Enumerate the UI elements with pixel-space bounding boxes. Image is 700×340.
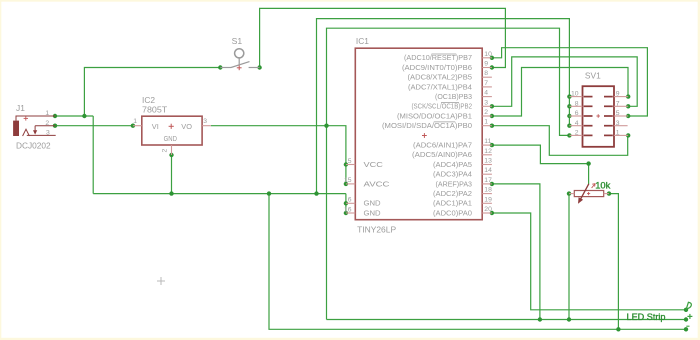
svg-text:7: 7: [484, 80, 488, 87]
junction dots IC1 right pins: [490, 56, 494, 216]
label DCJ0202: [16, 140, 51, 150]
svg-text:1: 1: [484, 119, 488, 126]
sheet origin cross: [157, 277, 165, 285]
svg-text:AVCC: AVCC: [364, 179, 391, 188]
switch S1 origin cross: [237, 65, 242, 70]
wire GND: rail down to LED minus line: [269, 194, 686, 330]
regulator IC2 origin cross: [169, 124, 174, 129]
microcontroller IC1 port B overlines: [432, 54, 460, 122]
svg-text:(ADC1)PA1: (ADC1)PA1: [433, 199, 472, 208]
wire GND: J1 pin1 run: [55, 115, 93, 117]
svg-text:7: 7: [616, 100, 620, 107]
label S1: [232, 36, 243, 46]
wire GND: bottom ground rail: [93, 193, 346, 195]
svg-text:(ADC7/XTAL1)PB4: (ADC7/XTAL1)PB4: [408, 82, 472, 91]
header SV1 inner pin dashes: [584, 97, 613, 136]
svg-text:1: 1: [45, 110, 49, 117]
svg-text:S1: S1: [232, 36, 243, 46]
potentiometer R1 pin stubs: [569, 193, 609, 195]
svg-text:17: 17: [484, 177, 492, 184]
svg-text:8: 8: [575, 100, 579, 107]
svg-text:10: 10: [484, 51, 492, 58]
svg-text:DCJ0202: DCJ0202: [16, 140, 51, 150]
label 10k: [595, 179, 610, 190]
svg-text:12: 12: [484, 148, 492, 155]
header SV1 box: [583, 86, 615, 147]
svg-text:5: 5: [616, 110, 620, 117]
connector J1 center prong: [23, 129, 30, 136]
svg-text:3: 3: [46, 130, 50, 137]
microcontroller IC1 box: [355, 48, 482, 220]
junction dot VCC tee: [324, 124, 328, 128]
label TINY26LP: [357, 224, 396, 234]
connector J1 pin 3: [27, 134, 56, 136]
header SV1 right pin numbers: [616, 91, 620, 137]
svg-text:2: 2: [45, 120, 49, 127]
label SV1: [585, 71, 601, 81]
svg-text:3: 3: [484, 99, 488, 106]
potentiometer R1 wiper arrow: [578, 184, 589, 204]
microcontroller IC1 power labels: [364, 160, 391, 218]
header SV1 right pin stubs: [614, 97, 628, 136]
svg-text:8: 8: [484, 70, 488, 77]
svg-text:(ADC5/AIN0)PA6: (ADC5/AIN0)PA6: [412, 150, 472, 159]
switch S1 button: [235, 49, 244, 65]
wire VCC: LED plus line: [327, 319, 687, 321]
svg-text:20: 20: [484, 206, 492, 213]
svg-text:11: 11: [484, 138, 491, 145]
pin minus endpoint glyph: [686, 325, 689, 327]
svg-text:TINY26LP: TINY26LP: [357, 224, 396, 234]
junction dots LED strip lines: [538, 308, 689, 332]
svg-text:(ADC8/XTAL2)PB5: (ADC8/XTAL2)PB5: [408, 73, 473, 82]
microcontroller IC1 left pin numbers: [344, 158, 352, 214]
regulator IC2 box: [142, 116, 202, 145]
junction dots SV1 right pins: [626, 94, 630, 137]
wire VCC: IC2 VO to IC1 VCC/AVCC: [211, 126, 346, 184]
svg-text:LED Strip: LED Strip: [627, 311, 666, 322]
microcontroller IC1 origin cross: [422, 133, 427, 138]
pin D endpoint glyph: [686, 302, 691, 309]
microcontroller IC1 port B labels: [382, 53, 472, 130]
potentiometer R1 origin cross: [587, 192, 590, 195]
microcontroller IC1 left pin stubs: [346, 165, 355, 214]
svg-text:13: 13: [484, 158, 492, 165]
svg-text:9: 9: [616, 91, 620, 98]
wire GND: IC2 pin2 drop to rail: [171, 155, 173, 194]
svg-text:(AREF)PA3: (AREF)PA3: [436, 179, 473, 188]
regulator IC2 pin numbers: [133, 118, 207, 153]
svg-text:10k: 10k: [595, 179, 610, 190]
svg-text:VCC: VCC: [364, 160, 384, 169]
svg-text:6: 6: [575, 110, 579, 117]
microcontroller IC1 right pin numbers: [484, 51, 492, 213]
svg-text:19: 19: [484, 196, 492, 203]
svg-text:15: 15: [344, 177, 352, 184]
junction dots IC1 left pins: [344, 162, 348, 215]
wire S1 to IC1 PB6: [260, 8, 506, 67]
svg-text:1: 1: [133, 118, 137, 125]
svg-text:3: 3: [616, 120, 620, 127]
wire GND: rail to IC1 GND pins: [345, 194, 347, 213]
svg-text:2: 2: [484, 109, 488, 116]
svg-text:(MOSI/DI/SDA/OC1A)PB0: (MOSI/DI/SDA/OC1A)PB0: [382, 121, 472, 130]
svg-text:7805T: 7805T: [142, 105, 167, 115]
svg-text:2: 2: [162, 149, 169, 153]
svg-text:10: 10: [571, 91, 579, 98]
header SV1 origin cross: [596, 114, 600, 118]
wire GND: J1 pin1 down to ground rail: [92, 116, 94, 194]
svg-text:GND: GND: [164, 136, 177, 143]
svg-text:(ADC6/AIN1)PA7: (ADC6/AIN1)PA7: [413, 141, 472, 150]
svg-text:IC2: IC2: [142, 95, 155, 105]
junction dots SV1 left pins: [567, 94, 571, 137]
svg-text:4: 4: [575, 120, 579, 127]
svg-text:(ADC3)PA4: (ADC3)PA4: [433, 170, 472, 179]
connector J1 body: [13, 121, 19, 136]
wire IC1 PB1 to SV1 pin9: [492, 68, 628, 117]
wire pot right pin to LED minus line: [609, 194, 618, 330]
svg-text:IC1: IC1: [356, 36, 369, 46]
junction dots S1: [218, 65, 262, 69]
svg-text:14: 14: [484, 167, 492, 174]
wire VCC: IC1 PA3 to LED plus line: [492, 184, 540, 320]
wire IC1 PB0 to SV1 pin1: [492, 126, 628, 156]
svg-text:GND: GND: [364, 199, 381, 208]
svg-text:SV1: SV1: [585, 71, 601, 81]
wire GND: up from J1 pin1 to S1 left: [84, 68, 220, 117]
connector J1 pin numbers: [45, 110, 50, 136]
junction dots IC2 gnd: [169, 153, 173, 196]
junction dots gnd rail: [267, 191, 319, 195]
svg-text:6: 6: [348, 197, 352, 204]
label IC1: [356, 36, 369, 46]
svg-text:(OC1B)PB3: (OC1B)PB3: [435, 92, 472, 101]
svg-text:3: 3: [203, 118, 207, 125]
pin plus endpoint glyph: [687, 314, 692, 319]
header SV1 left pin numbers: [571, 91, 579, 137]
svg-text:GND: GND: [364, 208, 381, 217]
wire VCC: loop over IC1 to SV1 pin2: [327, 28, 570, 319]
svg-text:(ADC0)PA0: (ADC0)PA0: [433, 208, 472, 217]
svg-text:4: 4: [484, 90, 488, 97]
wire VCC: pot left pin to LED plus line: [568, 194, 570, 320]
wire IC1 PA7 to pot wiper: [492, 145, 589, 184]
regulator IC2 pin labels VI VO GND: [152, 122, 192, 143]
potentiometer R1 adjust tick: [592, 184, 596, 188]
svg-text:(ADC2)PA2: (ADC2)PA2: [433, 189, 472, 198]
svg-text:(MISO/DO/OC1A)PB1: (MISO/DO/OC1A)PB1: [397, 111, 472, 120]
wire VIN: J1 pin2 to IC2 VI: [55, 125, 133, 127]
connector J1 origin cross: [24, 116, 28, 120]
potentiometer R1 10k box: [574, 191, 603, 197]
connector J1 pin 2 with switch arrow: [33, 126, 55, 135]
label J1: [16, 103, 25, 113]
svg-text:1: 1: [616, 130, 620, 137]
svg-text:(ADC4)PA5: (ADC4)PA5: [433, 160, 472, 169]
svg-text:16: 16: [344, 206, 352, 213]
regulator IC2 pin 3 stub: [202, 125, 211, 127]
wire GND: loop over IC1 to SV1 pins 10-4: [317, 19, 570, 194]
svg-text:2: 2: [575, 130, 579, 137]
label IC2: [142, 95, 155, 105]
svg-text:VO: VO: [181, 122, 192, 131]
header SV1 left pin stubs: [569, 97, 582, 136]
microcontroller IC1 port A labels: [412, 141, 472, 218]
svg-text:(ADC10/RESET)PB7: (ADC10/RESET)PB7: [404, 53, 472, 62]
regulator IC2 pin 2 stub: [171, 145, 173, 155]
label LED Strip: [627, 311, 666, 322]
label 7805T: [142, 105, 167, 115]
junction dots pot pins: [567, 191, 611, 195]
svg-text:5: 5: [348, 158, 352, 165]
wire IC1 PB7 to SV1 pin5: [492, 48, 648, 116]
wire IC1 PB2 to SV1 pin7: [492, 57, 637, 106]
svg-text:18: 18: [484, 187, 492, 194]
switch S1 lever and contacts: [220, 62, 259, 68]
junction dot pot wiper tee: [586, 161, 590, 165]
svg-text:(SCK/SCL/OC1B)PB2: (SCK/SCL/OC1B)PB2: [412, 102, 473, 111]
wire IC1 PA0 to LED data line: [492, 213, 686, 310]
svg-text:J1: J1: [16, 103, 25, 113]
connector J1 pin 1: [16, 116, 55, 121]
svg-text:9: 9: [484, 61, 488, 68]
microcontroller IC1 right pin stubs: [482, 58, 492, 213]
regulator IC2 pin 1 stub: [133, 125, 142, 127]
junction dots J1 area: [53, 114, 135, 128]
svg-text:VI: VI: [152, 122, 159, 131]
svg-text:(ADC9/INT0/T0)PB6: (ADC9/INT0/T0)PB6: [402, 63, 472, 72]
